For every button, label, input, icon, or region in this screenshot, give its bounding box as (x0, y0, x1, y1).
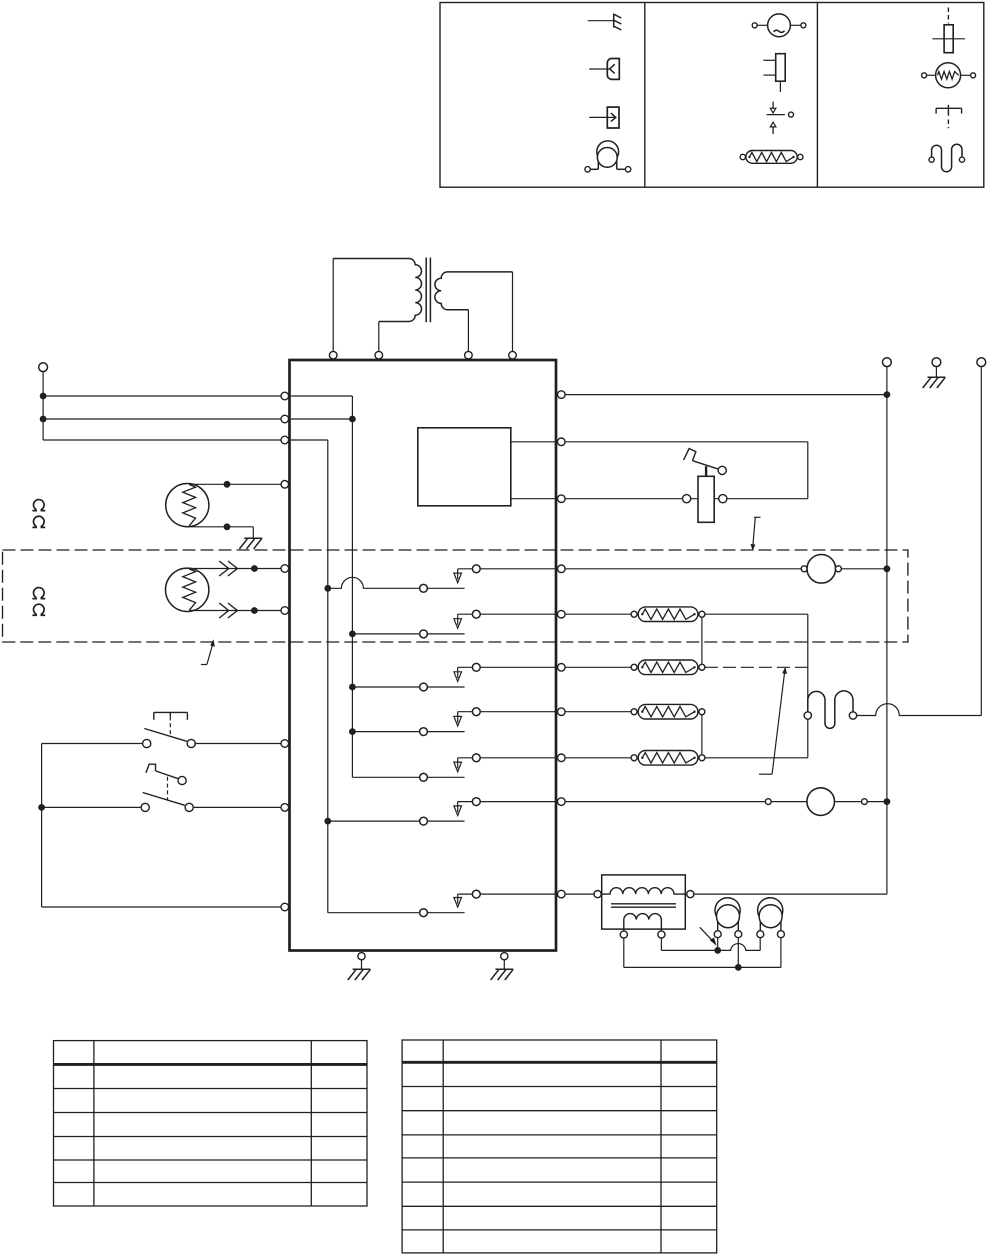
pump P1 (714, 898, 742, 938)
ground under control board (348, 953, 371, 980)
legend chassis-ground symbol (588, 14, 622, 31)
relay contact K1 (328, 565, 556, 592)
wire heater pair links (701, 617, 703, 755)
terminal T1 pins on control-board top edge (329, 351, 516, 359)
node junction on input bus (40, 393, 47, 423)
relay contact K3 (352, 663, 556, 691)
node pump lower junction (735, 964, 742, 971)
legend door-lock symbol (763, 54, 785, 92)
leader to dashed option box (751, 517, 760, 549)
wire display module to edge (511, 442, 556, 499)
legend thermal cutoff symbol (936, 105, 962, 129)
wire internal bus A (291, 396, 352, 777)
dashed option box (drying feature) (3, 550, 908, 642)
door lock assembly DL1 (683, 449, 727, 523)
legend thermal contact symbol (767, 102, 794, 134)
parts table 2 (402, 1040, 717, 1253)
node M2 junction (884, 798, 891, 805)
heater R2 (565, 660, 808, 675)
motor M2 (765, 788, 867, 816)
node switch bus junction (38, 804, 45, 811)
node bus A junctions (349, 416, 356, 735)
pump P2 (757, 898, 785, 938)
thermal cut-out TCO (wire loop) (804, 691, 857, 729)
wire line N to vertical bus (565, 394, 887, 396)
node NTC2 junctions (251, 565, 258, 614)
thermistor NTC2 (166, 561, 282, 618)
wire door-lock loop (565, 442, 808, 499)
leader to NTC2 dashed box (201, 641, 214, 665)
display module A1 outline (418, 428, 511, 506)
legend table frame (440, 3, 984, 188)
wire to motor M2 (565, 801, 766, 803)
node NTC1 junctions (224, 481, 231, 530)
control board U1 outline (290, 360, 557, 951)
heater R4 (565, 751, 808, 766)
leader arrow to pump node (700, 927, 716, 944)
heater R1 (565, 607, 808, 622)
terminal L (line input) (39, 363, 48, 372)
terminals on control board left edge (281, 392, 289, 911)
relay contact K4 (352, 708, 556, 736)
wire to motor M1 (565, 568, 801, 570)
wire T2 to bus corner (694, 893, 887, 895)
node pump upper junction (714, 947, 721, 954)
thermistor NTC1 (166, 484, 281, 539)
legend pump symbol (585, 141, 631, 172)
label ohm values NTC2 (32, 588, 45, 616)
node N junction (884, 391, 891, 398)
label ohm values NTC1 (32, 500, 45, 528)
legend heater symbol (740, 151, 803, 164)
switch S1 (door switch) (143, 712, 281, 747)
switch S2 (selector) (141, 764, 281, 811)
legend motor symbol (752, 14, 806, 37)
ground chassis top right (923, 358, 946, 388)
wire to transformer T2 (565, 893, 594, 895)
wire left input bus (43, 372, 281, 440)
wire switch feed bus (42, 744, 281, 908)
wire to door-lock (565, 498, 683, 500)
wire heater bus vertical (807, 614, 809, 758)
transformer T2 (interference filter) (594, 875, 694, 938)
legend female connector symbol (589, 59, 619, 80)
node bus B junctions (324, 585, 331, 825)
relay contact K6 (328, 798, 556, 825)
wire pump lower net (624, 938, 781, 968)
relay contact K2 (352, 610, 556, 638)
ground under control board (491, 953, 514, 980)
terminal line R2 top (977, 358, 986, 367)
relay contact K7 (328, 890, 556, 916)
legend male connector symbol (589, 107, 619, 128)
terminals on control board right edge (558, 391, 566, 898)
legend thermistor symbol (922, 63, 976, 88)
node M1 junction (884, 565, 891, 572)
wire TCO to right bus with crossover (857, 367, 982, 716)
legend wire-harness symbol (929, 144, 965, 171)
wire main vertical bus L1 (886, 367, 888, 895)
heater R3 (565, 704, 705, 719)
parts table 1 (54, 1041, 368, 1206)
wire M1 to bus (841, 568, 887, 570)
wire pump upper net with crossover (661, 938, 760, 951)
terminal line L1 top (883, 358, 892, 367)
ground chassis NTC1 (239, 538, 262, 549)
wire internal bus B (291, 440, 328, 913)
leader to dashed heater option (759, 668, 786, 774)
motor M1 (801, 555, 841, 584)
wire M2 to bus (867, 801, 887, 803)
relay contact K5 (352, 754, 556, 781)
legend fuse symbol (932, 8, 965, 53)
transformer T1 (333, 258, 512, 352)
